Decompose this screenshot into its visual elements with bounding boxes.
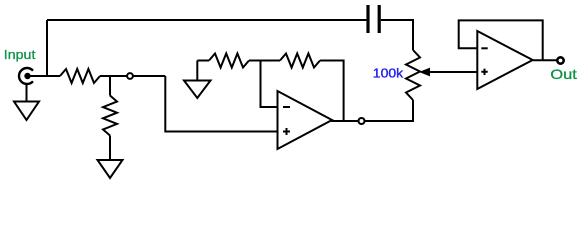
wire junction down to R2 [109,76,111,96]
capacitor C1 [368,5,379,33]
wire input to R1 [29,75,60,77]
wire capacitor to pot top [381,20,413,50]
svg-text:100k: 100k [373,65,404,80]
wire G3 to R3 [197,60,209,62]
node A [127,73,133,79]
ground G1 [14,102,39,121]
resistor R1 [60,69,100,83]
wire R4 right end down to output (feedback) [320,61,344,122]
wire input terminal to ground [26,84,28,102]
op-amp U2 [477,31,532,89]
output terminal J2 [557,57,563,63]
svg-text:Input: Input [4,47,36,62]
wire U2 output to terminal [533,59,557,61]
wire junction down to U1 minus input [261,61,278,108]
ground G2 [98,160,123,178]
wire branch up to top rail [46,20,48,76]
wire top rail [47,19,366,21]
resistor R3 [209,54,249,68]
potentiometer R5 [406,50,420,100]
node B [359,118,365,124]
input terminal J1 [19,68,33,84]
wiper arrow of R5 [419,68,477,77]
op-amp U1 [278,91,333,149]
wire R1 to node A and on to corner [100,75,165,77]
svg-text:Out: Out [550,66,577,82]
wire R2 to ground [109,136,111,161]
wire corner down to U1 plus input [165,76,277,132]
resistor R4 [280,54,320,68]
wire U2 minus input feedback loop [459,20,543,60]
wire U1 output to pot bottom [332,100,413,121]
ground G3 [184,61,211,99]
resistor R2 [103,96,117,136]
wire R3 to R4 [249,60,280,62]
